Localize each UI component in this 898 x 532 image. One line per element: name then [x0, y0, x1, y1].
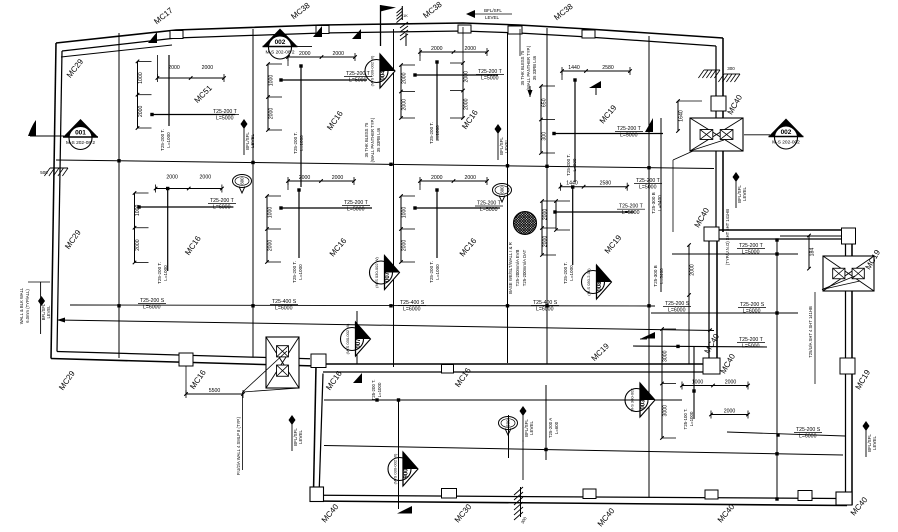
oval tag 600 a: [233, 175, 252, 194]
oval tag 500: [499, 417, 518, 436]
section cut line with hatch: [397, 6, 403, 23]
rebar cluster B2 label: [342, 200, 370, 213]
svg-text:T25-200 S: T25-200 S: [665, 301, 690, 307]
lower section top wall: [323, 371, 709, 373]
svg-text:L=6000: L=6000: [743, 309, 761, 315]
rebar cluster B1 label: [208, 198, 236, 211]
marker 002 top leader: [297, 46, 312, 48]
dist label 1: [270, 299, 298, 312]
marker 001 flag: [28, 120, 36, 136]
rebar cluster A3 label: [476, 69, 504, 82]
svg-text:2000: 2000: [332, 51, 344, 57]
svg-text:T25-200 T.: T25-200 T.: [293, 132, 298, 154]
svg-text:M-S 202-08 2: M-S 202-08 2: [265, 50, 294, 56]
corner block MC40 bottom: [703, 358, 720, 374]
level bottom line ext: [522, 440, 524, 480]
grid line A: [118, 33, 120, 358]
marker 008: [582, 265, 612, 299]
svg-text:LEVEL: LEVEL: [504, 139, 509, 154]
svg-text:L=5000: L=5000: [742, 344, 760, 350]
shear column right-mid: [823, 256, 874, 291]
diagonal leader top-right column: [690, 140, 724, 151]
svg-text:2000: 2000: [332, 175, 344, 181]
short drop below wall: [405, 33, 407, 46]
ground hatch top-right a: [698, 70, 720, 78]
rebar cluster A2 top dim: [286, 51, 357, 61]
column bottom wall 2: [583, 489, 596, 499]
svg-text:2000: 2000: [138, 105, 144, 117]
svg-text:2000: 2000: [464, 98, 470, 110]
column bottom wall 1: [442, 489, 457, 499]
right wall A: [722, 38, 724, 232]
svg-text:L=5000: L=5000: [620, 133, 638, 139]
column upper bottom wall: [179, 353, 193, 366]
grid line C lower: [398, 400, 400, 509]
svg-text:1000: 1000: [402, 207, 408, 219]
rebar cluster B1 rebar vertical: [167, 189, 169, 272]
rebar cluster A1 top dim: [156, 65, 226, 82]
flag A4 step: [589, 81, 601, 88]
level marker right: [733, 172, 748, 208]
ground hatch top-right b: [718, 74, 740, 82]
svg-text:300: 300: [542, 132, 548, 141]
rebar cluster A1 rebar vertical: [168, 55, 170, 126]
dist label 6: [794, 427, 822, 440]
svg-text:T25/U/A SHT 4 SHT 141HB: T25/U/A SHT 4 SHT 141HB: [808, 306, 813, 358]
grid line D0 lower: [508, 415, 510, 458]
svg-text:650: 650: [542, 98, 548, 107]
svg-text:1440: 1440: [568, 65, 580, 71]
joint notch top wall 3: [508, 26, 522, 34]
svg-text:T25-200 T: T25-200 T: [346, 71, 371, 77]
svg-text:T25-200 T.: T25-200 T.: [157, 262, 162, 284]
br rebar vertical: [693, 347, 695, 419]
horizontal line through right-mid column: [744, 134, 770, 136]
svg-text:T25-200 S: T25-200 S: [140, 298, 165, 304]
svg-text:T25-200 T.: T25-200 T.: [563, 262, 568, 284]
level marker top horizontal: [466, 8, 512, 20]
svg-text:L=5400: L=5400: [657, 195, 662, 211]
svg-text:1000: 1000: [268, 207, 274, 219]
rebar cluster A4: [539, 65, 663, 182]
svg-text:L=1000: L=1000: [435, 264, 440, 280]
horizontal distribution line right y313: [651, 312, 798, 314]
svg-text:008: 008: [597, 281, 603, 292]
svg-text:LEVEL: LEVEL: [742, 187, 747, 202]
corner column lower-left: [311, 354, 326, 368]
svg-text:2580: 2580: [602, 65, 614, 71]
flag top wall a: [148, 32, 157, 43]
drop line from notch x520: [519, 29, 521, 56]
svg-text:35 33RB L46: 35 33RB L46: [532, 55, 537, 80]
corner block right wall B top: [842, 228, 856, 244]
level marker top-band 2: [495, 124, 510, 160]
svg-text:(WALL PANTHER TYP.): (WALL PANTHER TYP.): [370, 117, 375, 162]
svg-text:T25-200mm/A DAT: T25-200mm/A DAT: [522, 249, 527, 286]
svg-text:2000: 2000: [299, 51, 311, 57]
svg-text:1000: 1000: [138, 72, 144, 84]
svg-text:(M-S 030-2-08): (M-S 030-2-08): [586, 268, 591, 296]
joint notch top wall 2b: [458, 25, 471, 33]
rebar cluster B4 label: [617, 204, 645, 217]
svg-text:(M-S 030-002 W): (M-S 030-002 W): [345, 323, 350, 354]
svg-text:2000: 2000: [135, 239, 141, 251]
svg-text:T25-200 T: T25-200 T: [210, 198, 235, 204]
svg-text:T25-200 T.: T25-200 T.: [160, 129, 165, 151]
svg-text:2000: 2000: [464, 175, 476, 181]
svg-text:35 33RB L46: 35 33RB L46: [376, 127, 381, 152]
interior horizontal line y320: [57, 320, 714, 331]
svg-text:2000: 2000: [724, 409, 736, 415]
A3 vdim right: [450, 61, 470, 120]
svg-text:2000: 2000: [166, 175, 178, 181]
svg-text:2000: 2000: [202, 65, 214, 71]
crosshatched circle (base weld): [514, 212, 537, 235]
flag lower a: [353, 373, 362, 383]
svg-text:007: 007: [356, 338, 362, 349]
top wall outer line: [56, 23, 723, 43]
rebar cluster B4 top dim: [559, 181, 629, 191]
level marker top-band: [241, 119, 256, 155]
ground hatch bottom: [514, 487, 523, 520]
br label mid: [737, 337, 765, 350]
grid segment H: [356, 311, 358, 364]
svg-text:L=5000: L=5000: [639, 185, 657, 191]
rebar cluster B3 top dim: [418, 175, 489, 185]
rebar cluster B2 rebar vertical: [298, 190, 300, 258]
svg-text:1000: 1000: [269, 75, 275, 87]
br rebar mid: [633, 346, 767, 347]
rebar cluster B2 left dim: [265, 194, 281, 264]
lower-left wall: [314, 366, 316, 487]
svg-text:T25-200 T: T25-200 T: [739, 337, 764, 343]
br top bar: [640, 338, 647, 340]
svg-text:LEVEL: LEVEL: [250, 134, 255, 149]
leader drop line lower-left: [242, 392, 244, 470]
svg-text:T25-200 T.: T25-200 T.: [429, 122, 434, 144]
svg-text:007: 007: [385, 271, 391, 282]
br rebar top: [672, 253, 798, 255]
rebar cluster A2 left dim: [266, 62, 282, 132]
flag lower b: [397, 506, 412, 514]
svg-text:L=1000: L=1000: [435, 125, 440, 141]
dist label 2: [398, 300, 426, 313]
wall MC40 vertical: [708, 239, 710, 372]
svg-text:LEVEL: LEVEL: [46, 305, 51, 319]
svg-text:L=1000: L=1000: [299, 135, 304, 151]
svg-text:2000: 2000: [431, 175, 443, 181]
svg-text:(TYP/U.N.O) SHT 5HT 141HB: (TYP/U.N.O) SHT 5HT 141HB: [725, 209, 730, 265]
B4 vdim left2: [540, 199, 556, 257]
svg-text:L=1000: L=1000: [163, 265, 168, 281]
svg-text:T25-200 T.: T25-200 T.: [371, 380, 376, 401]
svg-text:2000: 2000: [299, 175, 311, 181]
svg-text:2000: 2000: [464, 46, 476, 52]
level marker bottom: [520, 406, 535, 442]
corner block bottom-right: [836, 492, 852, 505]
dim 550: [184, 388, 245, 398]
svg-text:3000: 3000: [663, 405, 669, 417]
svg-text:003: 003: [641, 399, 647, 410]
svg-text:BFL/SFL: BFL/SFL: [484, 8, 502, 13]
section hatch across wall: [400, 22, 408, 40]
shear column lower-left: [266, 337, 299, 388]
section flag top center: [381, 5, 397, 46]
svg-text:L=5000: L=5000: [349, 78, 367, 84]
dim 184: [807, 234, 815, 271]
right band rebar vertical: [660, 118, 662, 230]
svg-text:900: 900: [404, 468, 410, 479]
br flag: [641, 332, 655, 339]
rebar cluster B1 rebar horizontal: [139, 206, 233, 208]
br vdim upper: [687, 243, 695, 297]
rebar cluster A1: [136, 55, 239, 151]
marker 002 right: [769, 119, 804, 150]
column on right wall A: [711, 96, 726, 111]
svg-text:L=600: L=600: [554, 421, 559, 434]
lower horizontal line y448: [324, 446, 843, 456]
rebar cluster B4 rebar vertical: [572, 187, 574, 265]
rebar cluster A3 rebar horizontal: [415, 74, 498, 76]
svg-text:T25-200 T: T25-200 T: [213, 109, 238, 115]
grid line B: [252, 29, 254, 357]
svg-text:L=1000: L=1000: [166, 132, 171, 148]
svg-text:T25-200 T: T25-200 T: [478, 69, 503, 75]
dist label 5: [738, 302, 766, 315]
rebar cluster B3 label: [475, 201, 503, 214]
svg-text:L=6000: L=6000: [213, 205, 231, 211]
dist label 0: [138, 298, 166, 311]
svg-text:LEVEL: LEVEL: [298, 430, 303, 445]
rebar cluster B3 rebar vertical: [436, 190, 438, 258]
svg-text:T25-400 S: T25-400 S: [272, 299, 297, 305]
svg-text:L=1000: L=1000: [569, 265, 574, 281]
svg-text:2000: 2000: [543, 209, 549, 221]
step wall: [717, 229, 852, 231]
svg-text:1640: 1640: [679, 110, 685, 122]
svg-text:LEVEL: LEVEL: [529, 421, 534, 436]
svg-text:2000: 2000: [402, 99, 408, 111]
left wall: [51, 43, 56, 359]
diagonal leaders lower-left column: [243, 351, 287, 392]
rebar cluster A4 top dim: [560, 65, 632, 75]
dim 1640: [676, 99, 684, 133]
svg-text:2000: 2000: [543, 236, 549, 248]
svg-text:M-S 300-002: M-S 300-002: [630, 388, 635, 412]
svg-text:2000: 2000: [402, 240, 408, 252]
svg-text:2000: 2000: [268, 240, 274, 252]
marker 004: [365, 54, 395, 88]
rebar cluster B2 top dim: [286, 175, 356, 185]
svg-text:L=6000: L=6000: [403, 307, 421, 313]
svg-text:L=6000: L=6000: [668, 308, 686, 314]
rebar cluster B3 left dim: [399, 194, 415, 264]
svg-text:LEVEL: LEVEL: [485, 15, 500, 20]
svg-text:T25-200 T: T25-200 T: [344, 200, 369, 206]
marker 001 leader line: [30, 135, 64, 137]
svg-text:5500: 5500: [209, 388, 221, 394]
svg-text:BASE WE/SLT/WALL I & R: BASE WE/SLT/WALL I & R: [508, 242, 513, 294]
svg-text:(M-S 030-002 W): (M-S 030-002 W): [370, 55, 375, 86]
rebar cluster B4 left dim: [554, 199, 570, 232]
br hdim1: [680, 380, 750, 390]
marker 002 top: [263, 29, 298, 60]
svg-text:P.U/2/A WALL 4 SMLP 8 (TYP.): P.U/2/A WALL 4 SMLP 8 (TYP.): [236, 416, 241, 475]
svg-text:T25-200 S: T25-200 S: [796, 427, 821, 433]
rebar cluster B1 top dim: [154, 175, 224, 193]
level marker left with wall note: [19, 282, 51, 334]
svg-text:T25-200 A: T25-200 A: [548, 418, 553, 438]
rebar cluster B4 rebar horizontal: [555, 211, 634, 213]
svg-text:L=6000: L=6000: [143, 305, 161, 311]
note arrow: [529, 86, 531, 97]
svg-text:T25-100 T.: T25-100 T.: [683, 409, 688, 430]
marker 003: [625, 383, 655, 417]
svg-text:T25-200 T: T25-200 T: [619, 204, 644, 210]
svg-text:WALL & BLK WALL: WALL & BLK WALL: [19, 287, 24, 324]
svg-text:LEVEL: LEVEL: [872, 436, 877, 451]
corner block bottom-left: [310, 487, 324, 502]
rebar cluster B2: [265, 175, 372, 283]
dist label 4: [663, 301, 691, 314]
br label top: [737, 243, 765, 256]
br hdim2: [709, 409, 750, 419]
rebar cluster A2 rebar vertical: [300, 66, 302, 187]
column right wall B mid: [840, 358, 855, 374]
rebar cluster A2 rebar horizontal: [281, 79, 367, 81]
svg-text:L=5000: L=5000: [480, 207, 498, 213]
lower-right horizontal line y435: [727, 432, 845, 436]
rebar cluster A3 top dim: [418, 46, 489, 56]
svg-text:(WALL PANTHER TYP.): (WALL PANTHER TYP.): [526, 45, 531, 90]
flag mid a: [352, 29, 361, 39]
svg-text:M-S 202-08 2: M-S 202-08 2: [66, 140, 95, 146]
marker 001: [63, 119, 98, 150]
upper bottom wall: [51, 359, 316, 367]
top wall third line at left: [61, 45, 172, 57]
svg-text:1K: 1K: [403, 14, 408, 18]
notch lower top wall: [442, 365, 454, 374]
rebar cluster A1 left dim: [136, 60, 152, 130]
svg-text:35 THK BLESS 75: 35 THK BLESS 75: [520, 50, 525, 85]
rebar cluster B2 rebar horizontal: [281, 207, 372, 209]
dist label 3: [531, 300, 559, 313]
svg-text:L=6000: L=6000: [275, 306, 293, 312]
right band label: [634, 178, 662, 191]
svg-text:T25-200 T.: T25-200 T.: [566, 154, 571, 176]
svg-text:2000: 2000: [269, 108, 275, 120]
grid line F lower right: [776, 239, 778, 500]
joint notch top wall 4: [582, 30, 595, 38]
oval tag 600 b: [493, 184, 512, 203]
svg-text:T25-200 T: T25-200 T: [477, 201, 502, 207]
joint notch top wall 2: [316, 26, 329, 34]
svg-text:L=6000: L=6000: [799, 434, 817, 440]
column bottom wall 4: [798, 491, 812, 501]
level marker lower-left: [289, 415, 304, 451]
marker 007 b: [341, 322, 371, 356]
grid line G right band: [660, 118, 662, 292]
top wall inner line: [62, 31, 716, 51]
rebar cluster A2 label: [344, 71, 372, 84]
rebar cluster B1 left dim: [133, 191, 149, 264]
svg-text:004: 004: [381, 70, 387, 81]
svg-text:3000: 3000: [663, 350, 669, 362]
svg-text:T25-300 B: T25-300 B: [651, 192, 656, 213]
svg-text:L=5000: L=5000: [742, 250, 760, 256]
horizontal beam line y160: [56, 160, 714, 169]
flag grid E: [645, 118, 653, 132]
svg-text:T25-200 T.: T25-200 T.: [292, 261, 297, 283]
rebar cluster A4 label: [615, 126, 643, 139]
svg-text:001: 001: [75, 130, 86, 137]
svg-text:2000: 2000: [690, 264, 696, 276]
svg-text:2000: 2000: [402, 72, 408, 84]
br vdim: [660, 327, 676, 440]
rebar cluster B3 rebar horizontal: [415, 207, 500, 209]
rebar cluster B3: [399, 175, 503, 283]
svg-text:500: 500: [506, 419, 511, 427]
svg-text:T25-300 B: T25-300 B: [653, 265, 658, 286]
corner block MC40 top: [704, 227, 719, 241]
svg-text:T25-400 S: T25-400 S: [533, 300, 558, 306]
rebar cluster A1 label: [211, 109, 239, 122]
rebar cluster A4 rebar vertical: [574, 80, 576, 182]
svg-text:002: 002: [781, 129, 792, 136]
br vdim upper extension: [688, 295, 690, 364]
svg-text:500: 500: [40, 170, 48, 175]
lower horizontal line y400: [324, 399, 682, 401]
svg-text:600: 600: [240, 177, 245, 185]
svg-text:T25-200 S: T25-200 S: [740, 302, 765, 308]
rebar cluster B1: [133, 175, 236, 284]
svg-text:L=1000: L=1000: [689, 411, 694, 426]
grid line D: [546, 28, 548, 364]
svg-text:L=5000: L=5000: [622, 210, 640, 216]
joint notch top wall 1: [170, 31, 183, 39]
grid line C: [393, 29, 395, 367]
rebar cluster A1 rebar horizontal: [152, 114, 235, 116]
svg-text:L=5000: L=5000: [481, 76, 499, 82]
svg-text:35 THK BLESS 75: 35 THK BLESS 75: [364, 122, 369, 157]
svg-text:2000: 2000: [168, 65, 180, 71]
svg-text:L=1000: L=1000: [377, 382, 382, 397]
svg-text:2000: 2000: [431, 46, 443, 52]
diagonal leader right-mid column: [822, 276, 855, 290]
svg-text:184: 184: [810, 248, 816, 257]
bottom wall: [310, 501, 847, 506]
rebar cluster A4 rebar horizontal: [554, 133, 663, 135]
svg-text:T25-200 T: T25-200 T: [739, 243, 764, 249]
svg-text:L=900: L=900: [572, 158, 577, 171]
svg-text:6.0mm (TYP/ALL): 6.0mm (TYP/ALL): [25, 289, 30, 323]
column bottom wall 3: [705, 490, 718, 499]
svg-text:T25-400 S: T25-400 S: [400, 300, 425, 306]
svg-text:L=6000: L=6000: [536, 307, 554, 313]
rebar cluster A3 rebar vertical: [436, 62, 438, 140]
svg-text:T25-200 T: T25-200 T: [617, 126, 642, 132]
rebar cluster A4 left dim: [539, 84, 555, 155]
svg-text:T25-200 T.: T25-200 T.: [429, 261, 434, 283]
right wall B: [851, 230, 853, 505]
svg-text:T25-200mm/A EVB: T25-200mm/A EVB: [515, 249, 520, 286]
marker 007 a: [370, 256, 400, 290]
svg-text:2000: 2000: [200, 175, 212, 181]
grid line D0: [507, 33, 509, 363]
rebar cluster A2: [266, 51, 372, 187]
rebar cluster B4: [553, 181, 645, 284]
level marker far-right: [863, 421, 878, 457]
